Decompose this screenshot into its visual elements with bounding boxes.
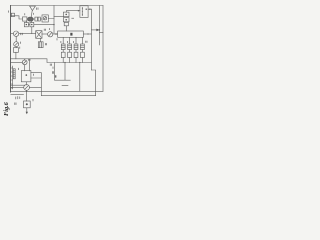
wire	[11, 84, 26, 86]
resistor ladder col2	[69, 37, 71, 62]
filter stack F3	[64, 22, 68, 25]
wire: right vertical x99.4	[98, 6, 100, 46]
modulator B7 (big box)	[21, 71, 31, 82]
wire: border double line	[12, 66, 14, 89]
wire	[15, 52, 17, 59]
filter B9 (hatched box below mixer)	[39, 38, 41, 42]
box B1	[23, 17, 27, 21]
filter stack F2	[63, 18, 69, 22]
wire	[26, 21, 54, 34]
transistor Q2	[14, 42, 19, 47]
wire	[15, 36, 17, 47]
wire	[19, 33, 36, 35]
wire: bottom bus 2	[41, 95, 95, 97]
wire	[11, 94, 24, 96]
transistor Q3	[22, 60, 27, 65]
wire	[11, 87, 42, 101]
wire: right vertical x91.4	[90, 9, 92, 70]
crystal B8 (bottom box)	[24, 101, 31, 108]
filter stack F1	[63, 12, 69, 17]
wire	[33, 18, 54, 21]
meter M1	[48, 32, 53, 37]
node N6	[26, 91, 27, 92]
node N1	[53, 24, 54, 25]
transistor Q1	[13, 31, 18, 36]
label specks	[8, 8, 87, 105]
mixer X1 (box with X)	[36, 31, 42, 39]
capacitor C1	[35, 17, 38, 21]
receiver B5 (top right box)	[80, 6, 88, 18]
wire: top border	[11, 5, 104, 7]
amplifier B4 (long box)	[58, 31, 84, 37]
connector arrow K1	[91, 29, 99, 31]
wire with arrow	[53, 33, 58, 35]
transducer E1 (dark oval)	[28, 17, 34, 21]
box B3	[30, 22, 34, 26]
wire	[88, 8, 91, 10]
wire	[11, 16, 23, 19]
wire: left border	[10, 6, 12, 93]
capacitor C2	[38, 17, 40, 21]
resistor R1 (hatched bar)	[13, 69, 15, 79]
wire: bottom right step	[91, 70, 103, 96]
ground arrow	[26, 108, 28, 112]
wire: bottom bus 1	[11, 90, 96, 92]
transistor Q4	[24, 85, 30, 91]
wire: right border	[102, 6, 104, 92]
node N2	[87, 33, 88, 34]
node N4	[64, 62, 65, 63]
wire: mid bus	[11, 59, 92, 63]
wire	[54, 11, 80, 31]
wire: vertical bus x54	[53, 6, 55, 34]
wire	[26, 73, 41, 96]
svg-text:Fig.6: Fig.6	[3, 101, 10, 116]
box B6	[13, 48, 18, 53]
wire	[83, 33, 91, 35]
node N5	[79, 62, 80, 63]
oscillator U1 (box with circle)	[42, 15, 48, 22]
wire	[42, 33, 48, 35]
connector J1 on left border	[11, 13, 14, 16]
resistor ladder col4	[81, 37, 83, 62]
antenna A1	[30, 6, 36, 17]
resistor ladder col1	[62, 37, 64, 62]
wire: mid-low stub	[55, 63, 71, 81]
wire: link to right border	[99, 32, 103, 34]
box B2	[24, 22, 28, 26]
wire	[11, 59, 30, 71]
resistor ladder col3	[75, 37, 77, 62]
wire: main chain left	[11, 33, 14, 35]
node N3	[89, 9, 90, 10]
wire: lower vertical	[79, 63, 81, 92]
